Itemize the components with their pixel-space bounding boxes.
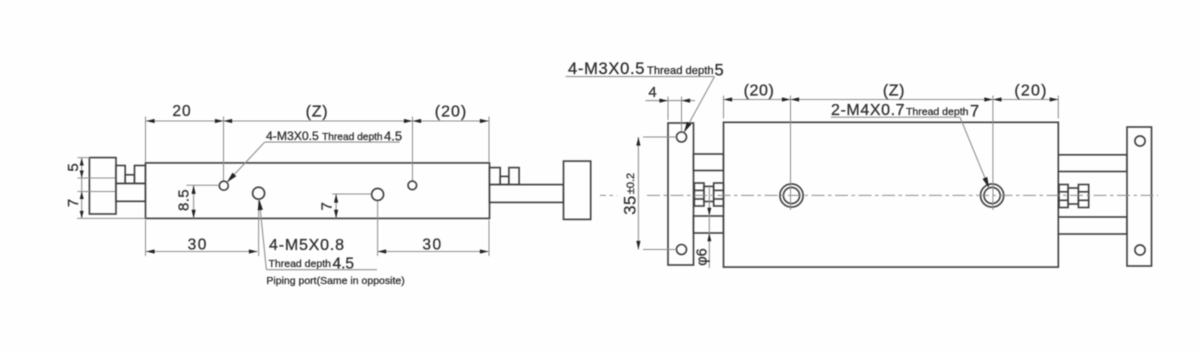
body bottom extension line xyxy=(77,217,146,219)
dimension text 7 rotated (body) xyxy=(319,202,336,210)
side view: hidden rod line upper through knob xyxy=(78,177,117,179)
top view label underline M4 xyxy=(831,116,960,118)
svg-text:4-M3X0.5: 4-M3X0.5 xyxy=(266,129,319,143)
svg-text:(20): (20) xyxy=(744,83,775,100)
side view: left locknut tab inner xyxy=(135,166,146,184)
svg-text:4-M3X0.5: 4-M3X0.5 xyxy=(568,60,645,78)
top view label underline M3 xyxy=(566,76,715,78)
top view dimension 4 line and outside arrows xyxy=(646,99,696,103)
leader to M3 hole left xyxy=(227,142,265,182)
svg-text:7: 7 xyxy=(319,202,336,210)
side view top dimension line xyxy=(146,120,489,122)
bottom dimension 30 left arrows xyxy=(146,249,258,253)
side view top dimension extension lines xyxy=(146,117,490,181)
svg-text:(Z): (Z) xyxy=(883,83,905,100)
dimension 7 knob arrows xyxy=(80,192,84,219)
top view: right locknut inner xyxy=(1059,185,1068,208)
side view: right locknut middle block xyxy=(500,176,509,184)
top view: counterbore hole right outer xyxy=(981,184,1004,207)
label 4-M5x0.8 Thread depth 4.5 xyxy=(269,237,355,272)
top view: left upper guide rod xyxy=(694,154,724,171)
top view: left locknut inner xyxy=(714,183,724,206)
top view: right upper guide rod xyxy=(1058,155,1127,172)
top view label 4-M3x0.5 Thread depth 5 xyxy=(568,60,724,80)
svg-text:8.5: 8.5 xyxy=(175,189,192,211)
label underline piping xyxy=(266,269,377,271)
svg-text:7: 7 xyxy=(65,199,82,207)
top view dimension 35 line and arrows xyxy=(636,137,640,250)
svg-text:Piping port(Same in opposite): Piping port(Same in opposite) xyxy=(266,275,404,287)
side view: adjuster knob xyxy=(89,158,116,214)
top view dimension 4 extension lines xyxy=(668,97,682,132)
top view: counterbore hole left outer xyxy=(780,184,803,207)
top view: left plate hole top xyxy=(677,132,687,142)
top view: left adjuster shaft xyxy=(704,186,714,201)
side view: piping port hole right xyxy=(372,188,384,200)
svg-text:Thread depth: Thread depth xyxy=(322,132,383,143)
top view: right plate hole bottom xyxy=(1135,245,1145,255)
side view: end plate xyxy=(564,161,591,219)
dimension 8.5 extension line xyxy=(186,184,219,186)
dimension text 8.5 rotated xyxy=(175,189,192,211)
svg-text:(20): (20) xyxy=(1014,83,1047,100)
top view: centerline xyxy=(600,194,1158,196)
side view: right piston rod xyxy=(490,185,564,203)
top view: right plate hole top xyxy=(1135,136,1145,146)
bottom dimension 30 right arrows xyxy=(378,249,489,253)
top view top dimension extension lines xyxy=(724,96,1059,211)
side view: knob top extension line xyxy=(78,157,91,159)
side view: cylinder body xyxy=(146,163,490,219)
top view: right adjuster shaft xyxy=(1068,188,1078,204)
top view dimension phi6 arrows xyxy=(707,208,711,242)
svg-text:5: 5 xyxy=(65,163,82,171)
svg-text:Thread depth: Thread depth xyxy=(647,65,714,77)
dimension 5 knob line and arrows xyxy=(80,158,84,218)
svg-text:±0.2: ±0.2 xyxy=(625,173,637,194)
top view: counterbore hole right inner xyxy=(984,187,1000,203)
top view leader to counterbore hole right xyxy=(960,117,989,188)
bottom dimension line 30 left xyxy=(146,251,258,253)
top view: left mounting plate xyxy=(668,123,694,265)
svg-text:4-M5X0.8: 4-M5X0.8 xyxy=(269,237,345,254)
side view: left rod section xyxy=(116,184,146,202)
top view dimension text (20) right xyxy=(1014,83,1047,100)
svg-text:7: 7 xyxy=(970,103,979,121)
bottom dimension line 30 right xyxy=(378,251,489,253)
dimension text (20) xyxy=(435,104,467,121)
top view top dimension arrowheads xyxy=(724,97,1059,101)
top view label 2-M4x0.7 Thread depth 7 xyxy=(831,102,979,121)
top view: left lower piston rod xyxy=(694,216,724,233)
svg-text:35: 35 xyxy=(622,195,640,214)
bottom dimension extension lines xyxy=(146,201,490,257)
side view: right locknut tab outer xyxy=(509,168,519,185)
svg-text:30: 30 xyxy=(422,237,442,254)
side view: left locknut middle block xyxy=(125,175,134,184)
top view: right mounting plate xyxy=(1127,127,1152,266)
top view dimension phi6 stem xyxy=(708,188,710,268)
side view: thread hole M3 right xyxy=(408,181,417,190)
top view dimension text (Z) xyxy=(883,83,905,100)
side view: piping port hole left xyxy=(253,187,265,199)
dimension 7 extension line (body) xyxy=(332,193,371,195)
side view: thread hole M3 left xyxy=(219,181,228,190)
leader to piping port hole xyxy=(258,199,267,270)
label underline xyxy=(265,141,400,143)
dimension text 30 left xyxy=(188,237,208,254)
side view: left locknut tab outer xyxy=(116,166,125,184)
side view top dimension arrowheads xyxy=(146,119,489,123)
dimension 7 line and arrows (body) xyxy=(334,194,338,218)
top view dimension text 4 xyxy=(648,84,656,101)
dimension text 5 rotated xyxy=(65,163,82,171)
top view dimension text phi6 rotated xyxy=(695,248,711,265)
svg-text:20: 20 xyxy=(172,103,191,120)
top view dimension 35 extension lines xyxy=(643,137,677,250)
svg-text:Thread depth: Thread depth xyxy=(269,258,332,270)
svg-text:Thread depth: Thread depth xyxy=(906,106,969,118)
dimension 8.5 line and arrows xyxy=(192,185,196,218)
svg-text:30: 30 xyxy=(188,237,208,254)
top view: cylinder body xyxy=(724,122,1059,267)
top view dimension text (20) left xyxy=(744,83,775,100)
top view dimension text 35 +-0.2 rotated xyxy=(622,173,640,215)
svg-text:5: 5 xyxy=(715,62,724,80)
top view: right lower piston rod xyxy=(1058,217,1127,234)
svg-text:(Z): (Z) xyxy=(306,104,329,121)
dimension text (Z) xyxy=(306,104,329,121)
top view leader to plate hole xyxy=(684,77,715,133)
svg-text:4.5: 4.5 xyxy=(384,128,402,143)
side view: hidden rod line lower through knob xyxy=(78,191,117,193)
top view: left plate hole bottom xyxy=(677,245,687,255)
top view: right locknut outer xyxy=(1078,185,1088,208)
top view: counterbore hole left inner xyxy=(783,187,799,203)
dimension text 20 xyxy=(172,103,191,120)
svg-text:4: 4 xyxy=(648,84,656,101)
side view: right locknut tab inner xyxy=(490,168,501,185)
dimension text 7 rotated knob xyxy=(65,199,82,207)
label 4-M3x0.5 Thread depth 4.5 xyxy=(266,128,402,143)
dimension text 30 right xyxy=(422,237,442,254)
svg-text:(20): (20) xyxy=(435,104,467,121)
top view top dimension line xyxy=(724,99,1059,101)
svg-text:2-M4X0.7: 2-M4X0.7 xyxy=(831,102,905,119)
label piping port xyxy=(266,275,404,287)
svg-text:φ6: φ6 xyxy=(695,248,711,265)
top view: left locknut outer xyxy=(694,183,704,206)
